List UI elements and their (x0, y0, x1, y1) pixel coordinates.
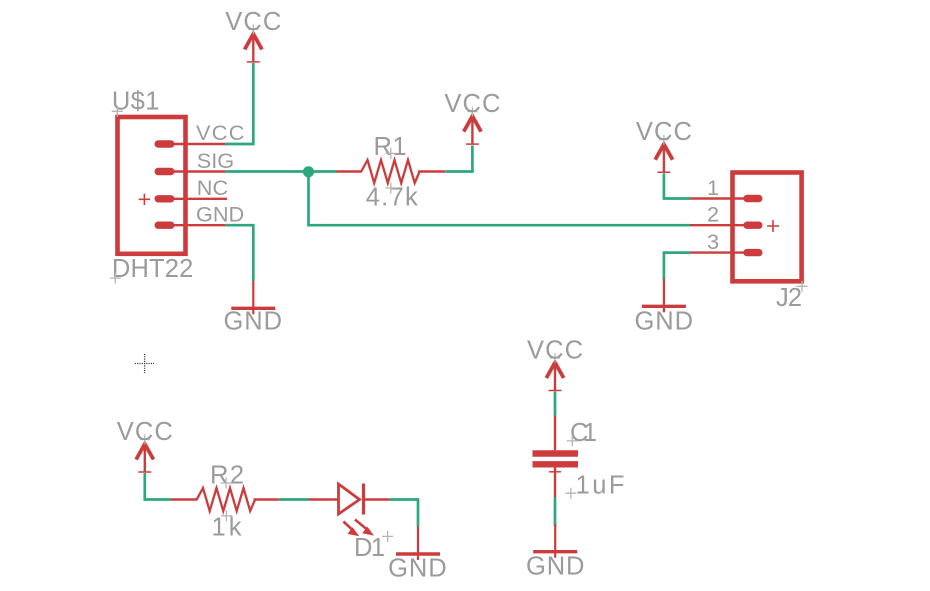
U$1 pin pad NC (155, 195, 175, 202)
resistor R1 zigzag (361, 160, 419, 183)
component U$1 DHT22 body (118, 117, 186, 254)
svg-text:SIG: SIG (197, 148, 234, 173)
wire R2 to D1 (279, 498, 309, 501)
svg-text:2: 2 (707, 202, 719, 227)
J2 pin line 2 (690, 224, 752, 226)
svg-text:GND: GND (196, 202, 244, 227)
svg-text:1uF: 1uF (576, 472, 625, 500)
J2 origin plus (767, 220, 779, 232)
svg-text:VCC: VCC (196, 120, 244, 145)
R2 value origin cross (221, 510, 232, 521)
U$1 pin line SIG (pin 2) (164, 170, 225, 172)
U$1 pin line NC (pin 3) (164, 198, 227, 200)
junction node SIG (303, 166, 314, 177)
svg-text:NC: NC (197, 175, 228, 200)
svg-text:1: 1 (707, 175, 719, 200)
supply symbol VCC (C1) (546, 353, 563, 391)
svg-text:R2: R2 (210, 462, 244, 490)
wire VCC to R2 (145, 473, 171, 500)
diode D1 cathode bar (362, 484, 365, 515)
wire VCC to J2 pin 1 (664, 173, 690, 198)
ground GND (below U$1) (231, 281, 275, 315)
capacitor C1 lead top (554, 416, 556, 451)
svg-text:GND: GND (388, 554, 447, 582)
wire J2 pin 3 to GND (664, 253, 690, 280)
ground GND (below J2) (642, 279, 686, 313)
ground GND (below C1) (533, 524, 577, 558)
U$1 value origin cross (110, 273, 121, 284)
U$1 pin pad SIG (155, 168, 175, 175)
wire SIG to R1 (225, 170, 336, 173)
svg-text:D1: D1 (354, 534, 385, 562)
C1 pin tick (549, 471, 561, 473)
D1 refdes origin cross (382, 531, 393, 542)
supply symbol VCC (R1) (464, 107, 481, 145)
svg-text:VCC: VCC (117, 418, 173, 446)
capacitor C1 lead bottom (554, 468, 556, 498)
R1 value origin cross (385, 183, 396, 194)
origin dotted cross (135, 354, 154, 373)
U$1 refdes origin cross (112, 106, 123, 117)
supply symbol VCC (J2) (655, 135, 672, 173)
svg-text:3: 3 (707, 229, 719, 254)
supply symbol VCC (R2) (136, 435, 153, 473)
svg-text:DHT22: DHT22 (112, 255, 193, 283)
wire VCC to C1 (554, 392, 557, 416)
resistor R2 lead left (171, 498, 198, 500)
svg-text:GND: GND (224, 308, 282, 336)
connector J2 body (733, 173, 802, 282)
U$1 pin pad VCC (155, 140, 175, 147)
capacitor C1 bottom plate (533, 461, 579, 467)
U$1 pin line GND (pin 4) (164, 224, 225, 226)
wire R1 to VCC (445, 146, 472, 172)
svg-text:VCC: VCC (527, 337, 583, 365)
J2 pin pad 2 (743, 222, 762, 229)
diode D1 lead right (364, 498, 390, 500)
LED arrow 1 (343, 522, 359, 537)
U$1 pin pad GND (155, 222, 175, 229)
diode D1 triangle (339, 484, 360, 514)
supply symbol VCC (top) (245, 24, 262, 62)
wire VCC symbol to U$1 VCC pin (225, 63, 253, 144)
diode D1 lead left (309, 498, 339, 500)
capacitor C1 top plate (533, 450, 579, 456)
resistor R1 lead right (418, 170, 445, 172)
J2 pin line 1 (690, 197, 752, 199)
resistor R1 lead left (337, 170, 363, 172)
J2 pin line 3 (690, 251, 752, 253)
U$1 pin line VCC (pin 1) (164, 143, 225, 145)
J2 refdes origin cross (797, 281, 808, 292)
J2 pin pad 1 (743, 195, 762, 202)
R2 refdes origin cross (221, 478, 232, 489)
svg-text:VCC: VCC (636, 118, 692, 146)
LED arrow 2 (355, 520, 374, 536)
R1 refdes origin cross (385, 148, 396, 159)
J2 pin pad 3 (743, 249, 762, 256)
resistor R2 lead right (254, 498, 279, 500)
ground GND (below D1) (396, 527, 440, 561)
resistor R2 zigzag (197, 488, 255, 511)
wire D1 to GND (389, 500, 418, 528)
svg-text:VCC: VCC (444, 90, 500, 118)
C1 refdes origin cross (567, 435, 578, 446)
wire U$1 GND pin to GND symbol (225, 225, 253, 281)
svg-text:GND: GND (635, 308, 694, 336)
wire junction down and right to J2 pin 2 (309, 172, 691, 225)
svg-text:C1: C1 (570, 419, 597, 447)
C1 value origin cross (565, 488, 576, 499)
svg-text:R1: R1 (374, 133, 407, 161)
wire C1 to GND (554, 498, 557, 526)
svg-text:GND: GND (526, 553, 585, 581)
svg-text:VCC: VCC (225, 8, 281, 36)
U$1 origin plus (139, 194, 150, 205)
svg-text:J2: J2 (776, 284, 802, 312)
